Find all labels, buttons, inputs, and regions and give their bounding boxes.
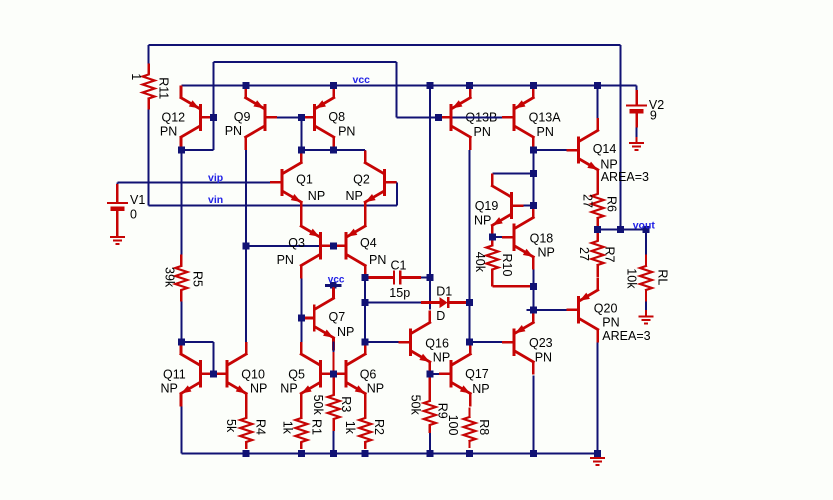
svg-text:100: 100 [446,415,460,436]
svg-text:NP: NP [474,213,491,227]
svg-text:NP: NP [280,382,297,396]
svg-text:Q16: Q16 [425,336,449,350]
svg-text:Q10: Q10 [241,368,265,382]
svg-text:NP: NP [337,325,354,339]
svg-text:Q13A: Q13A [529,111,562,125]
svg-text:Q5: Q5 [288,368,305,382]
svg-text:D: D [436,309,445,323]
svg-text:1: 1 [129,73,143,80]
svg-text:50k: 50k [409,395,423,416]
svg-text:vout: vout [633,219,656,231]
svg-text:PN: PN [537,125,554,139]
svg-text:NP: NP [161,382,178,396]
svg-text:1k: 1k [281,421,295,435]
svg-text:Q7: Q7 [329,310,346,324]
svg-text:40k: 40k [473,252,487,273]
svg-text:10k: 10k [624,268,638,289]
svg-text:D1: D1 [436,284,452,298]
svg-text:0: 0 [130,208,137,222]
svg-text:R11: R11 [157,77,171,99]
svg-text:NP: NP [538,246,555,260]
svg-text:AREA=3: AREA=3 [601,170,649,184]
svg-text:C1: C1 [391,258,407,272]
svg-text:Q18: Q18 [530,231,554,245]
svg-text:9: 9 [650,109,657,123]
svg-text:R1: R1 [309,419,323,435]
svg-text:V1: V1 [130,193,145,207]
svg-text:Q6: Q6 [360,368,377,382]
svg-text:Q2: Q2 [353,172,370,186]
svg-text:PN: PN [338,125,355,139]
svg-text:vcc: vcc [353,74,371,86]
svg-text:PN: PN [602,316,619,330]
svg-text:Q9: Q9 [234,110,251,124]
svg-text:R8: R8 [477,419,491,435]
svg-text:vcc: vcc [328,275,345,286]
svg-text:Q14: Q14 [593,142,617,156]
svg-text:PN: PN [225,124,242,138]
svg-text:PN: PN [369,253,386,267]
svg-text:vip: vip [208,172,223,184]
svg-text:50k: 50k [311,395,325,416]
svg-text:RL: RL [655,269,669,285]
svg-text:PN: PN [160,125,177,139]
svg-text:NP: NP [346,189,363,203]
svg-text:vin: vin [208,194,223,206]
svg-text:5k: 5k [224,419,238,433]
svg-text:NP: NP [308,189,325,203]
svg-text:27: 27 [577,247,591,261]
svg-text:1k: 1k [343,421,357,435]
svg-text:R4: R4 [254,419,268,435]
svg-text:Q3: Q3 [288,236,305,250]
svg-text:NP: NP [433,351,450,365]
svg-text:15p: 15p [389,286,410,300]
svg-text:Q11: Q11 [163,368,186,382]
svg-text:R5: R5 [191,271,205,287]
svg-text:AREA=3: AREA=3 [602,329,650,343]
svg-text:Q12: Q12 [162,110,186,124]
svg-text:Q19: Q19 [475,199,499,213]
svg-text:PN: PN [474,125,491,139]
svg-text:NP: NP [367,382,384,396]
svg-text:R6: R6 [604,196,618,212]
svg-text:39k: 39k [162,267,176,288]
svg-text:NP: NP [250,382,267,396]
svg-text:R2: R2 [372,419,386,435]
svg-text:PN: PN [277,253,294,267]
svg-text:Q8: Q8 [328,110,345,124]
svg-text:PN: PN [535,351,552,365]
svg-text:Q23: Q23 [529,336,553,350]
svg-text:27: 27 [580,194,594,208]
svg-text:Q1: Q1 [296,172,313,186]
svg-text:NP: NP [472,382,489,396]
svg-text:Q17: Q17 [465,367,489,381]
svg-text:Q20: Q20 [594,301,618,315]
svg-text:R10: R10 [500,254,514,277]
svg-text:Q4: Q4 [360,236,377,250]
svg-text:R7: R7 [602,247,616,263]
svg-text:R3: R3 [339,396,353,412]
